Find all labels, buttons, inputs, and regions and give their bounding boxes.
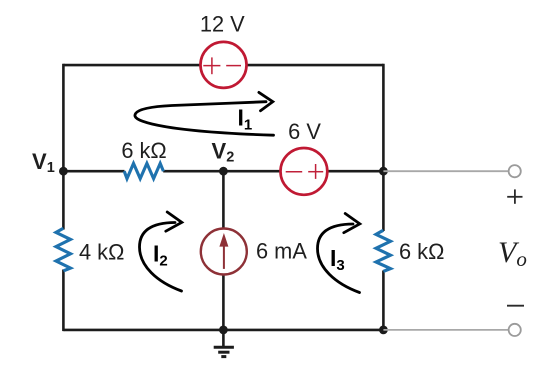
- svg-text:V1: V1: [32, 149, 55, 176]
- 6V plus symbol: [308, 164, 323, 179]
- loop arrow I1: [135, 92, 274, 135]
- svg-text:6 mA: 6 mA: [256, 238, 307, 263]
- wire left vertical lower: 4k resistor to bottom-left corner: [62, 270, 65, 332]
- svg-text:6 V: 6 V: [288, 119, 321, 144]
- node right-bottom junction dot: [379, 326, 388, 335]
- current source 6mA circle: [201, 229, 247, 275]
- node right-top junction dot: [379, 167, 388, 176]
- loop arrow I2: [140, 212, 182, 291]
- wire middle horizontal: 6k resistor to 6V source: [163, 170, 280, 173]
- wire top-left: V1 top corner to 12V source: [63, 64, 201, 67]
- loop arrow I3: [318, 214, 360, 293]
- 12V minus symbol: [226, 65, 241, 67]
- svg-text:4 kΩ: 4 kΩ: [79, 239, 124, 264]
- label plus output: [507, 189, 522, 203]
- wire top-right: 12V source to top-right corner: [247, 64, 384, 67]
- wire middle vertical: current source down to ground node: [222, 274, 225, 330]
- wire right vertical upper: top-right corner down to 6k resistor: [382, 64, 385, 231]
- wire right vertical lower: 6k resistor to bottom-right corner: [382, 271, 385, 332]
- node ground junction dot: [219, 326, 228, 335]
- voltage source 6V circle: [281, 148, 328, 195]
- wire gray output top: [383, 170, 508, 172]
- wire middle horizontal: 6V source to right wire: [327, 170, 383, 173]
- ground: [214, 330, 234, 357]
- 6V minus symbol: [286, 171, 303, 173]
- wire middle horizontal: V1 node to 6k resistor: [63, 170, 124, 173]
- node V1 junction dot: [59, 167, 68, 176]
- svg-text:V2: V2: [212, 139, 235, 166]
- svg-text:I1: I1: [238, 105, 253, 134]
- svg-text:I2: I2: [153, 240, 168, 269]
- wire gray output bottom: [383, 329, 508, 331]
- 12V plus symbol: [203, 57, 220, 74]
- terminal bottom circle: [509, 324, 521, 336]
- svg-text:6 kΩ: 6 kΩ: [121, 138, 166, 163]
- resistor 6k vertical right: [376, 230, 391, 271]
- resistor 4k vertical: [56, 228, 71, 271]
- svg-text:6 kΩ: 6 kΩ: [399, 239, 444, 264]
- wire bottom: bottom-left corner to bottom-right corner: [63, 329, 384, 332]
- node V2 junction dot: [219, 167, 228, 176]
- svg-text:Vo: Vo: [498, 236, 527, 271]
- voltage source V1=12V circle: [201, 42, 247, 88]
- svg-text:12 V: 12 V: [200, 12, 245, 37]
- current source arrow: [219, 233, 228, 269]
- label minus output: [507, 305, 524, 307]
- wire middle vertical: V2 node down to current source: [222, 171, 225, 229]
- wire left vertical upper: top corner down to 4k resistor: [62, 64, 65, 230]
- resistor 6k horizontal: [124, 163, 163, 178]
- terminal top circle: [509, 165, 521, 177]
- svg-text:I3: I3: [330, 245, 345, 274]
